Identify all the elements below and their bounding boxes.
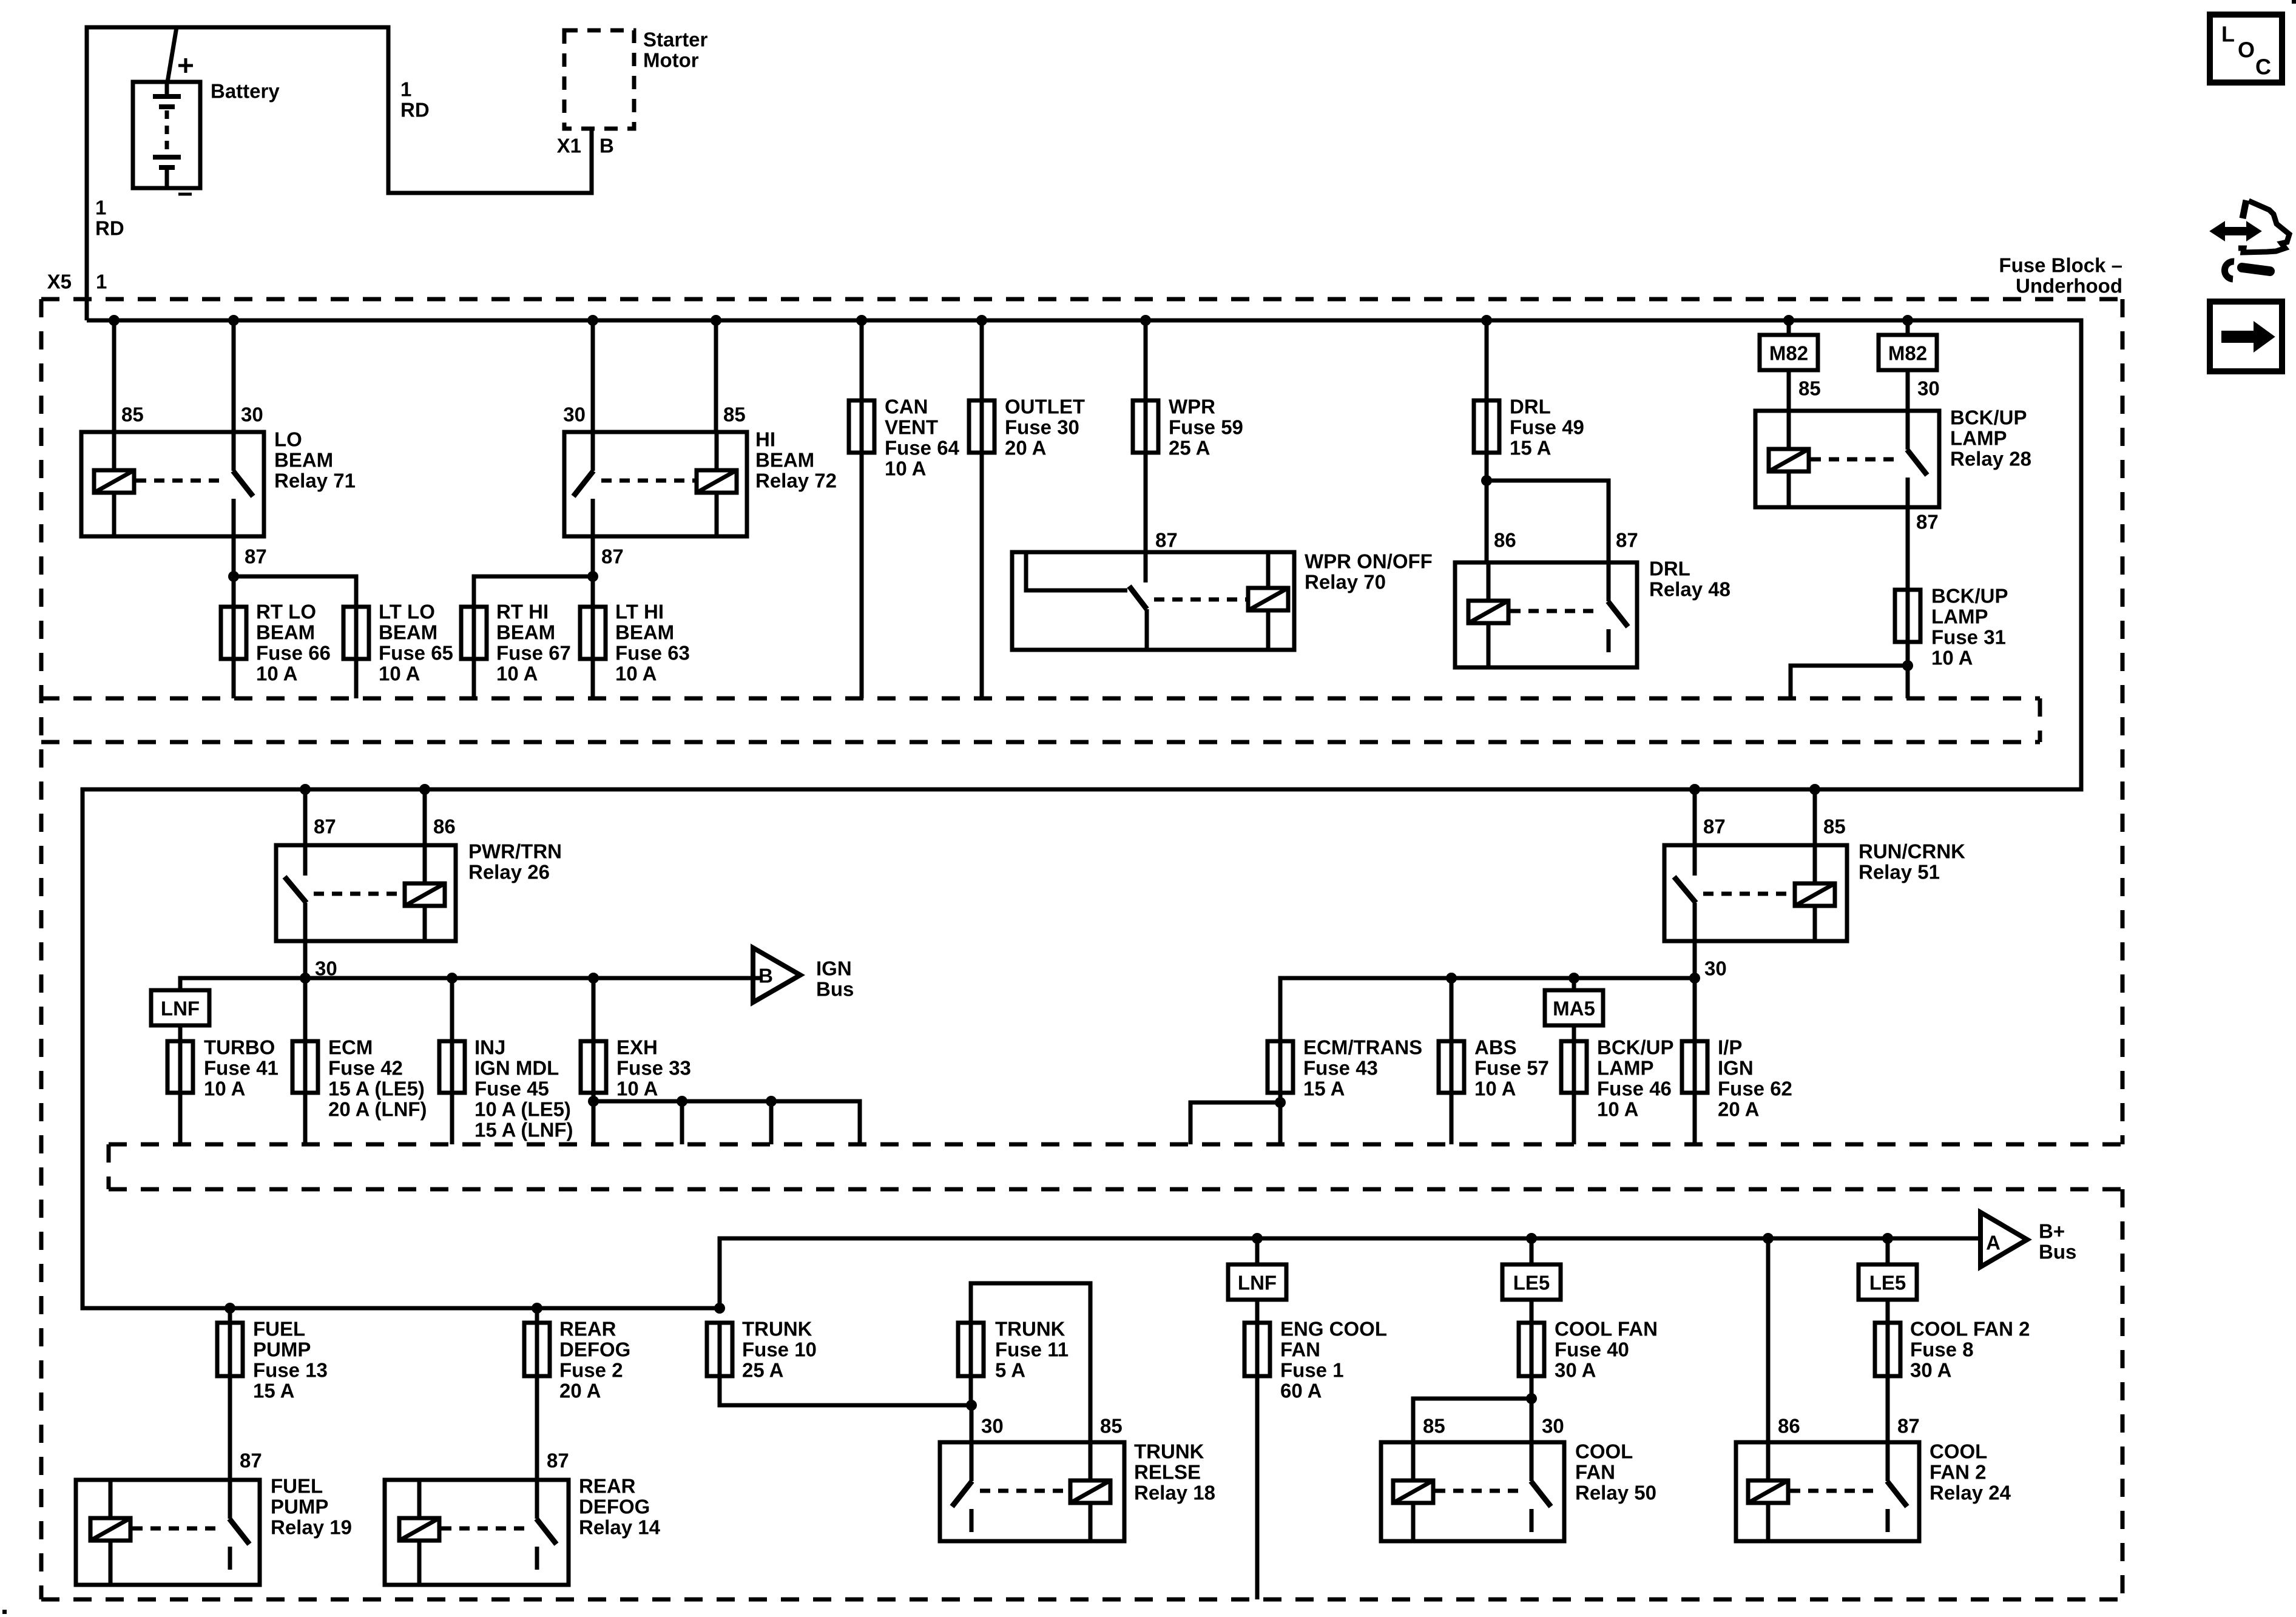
svg-text:BEAM: BEAM xyxy=(274,449,333,471)
svg-text:BCK/UP: BCK/UP xyxy=(1597,1036,1674,1059)
svg-text:Fuse 11: Fuse 11 xyxy=(995,1338,1069,1361)
svg-text:RD: RD xyxy=(95,217,124,240)
svg-text:B: B xyxy=(758,965,773,987)
svg-text:10 A: 10 A xyxy=(379,663,420,685)
svg-text:IGN: IGN xyxy=(1718,1057,1754,1079)
svg-text:O: O xyxy=(2238,38,2255,62)
svg-text:BCK/UP: BCK/UP xyxy=(1931,585,2008,607)
svg-text:M82: M82 xyxy=(1769,342,1808,365)
svg-text:10 A: 10 A xyxy=(204,1078,245,1100)
svg-text:Fuse 30: Fuse 30 xyxy=(1005,416,1079,439)
svg-text:X5: X5 xyxy=(47,271,72,293)
svg-text:Fuse 67: Fuse 67 xyxy=(496,642,571,664)
svg-text:25 A: 25 A xyxy=(742,1359,783,1382)
svg-text:85: 85 xyxy=(121,403,144,426)
svg-text:COOL: COOL xyxy=(1575,1440,1633,1463)
svg-text:Fuse 46: Fuse 46 xyxy=(1597,1078,1672,1100)
svg-text:30 A: 30 A xyxy=(1910,1359,1951,1382)
svg-text:86: 86 xyxy=(1494,529,1516,552)
svg-text:RD: RD xyxy=(400,99,430,121)
svg-text:RT HI: RT HI xyxy=(496,601,549,623)
svg-text:Fuse 62: Fuse 62 xyxy=(1718,1078,1792,1100)
svg-text:Fuse 8: Fuse 8 xyxy=(1910,1338,1974,1361)
svg-text:LT LO: LT LO xyxy=(379,601,435,623)
svg-text:BCK/UP: BCK/UP xyxy=(1950,407,2027,429)
svg-text:RUN/CRNK: RUN/CRNK xyxy=(1859,840,1965,863)
svg-text:FUEL: FUEL xyxy=(271,1475,323,1497)
svg-text:LE5: LE5 xyxy=(1513,1272,1550,1294)
svg-text:Fuse 31: Fuse 31 xyxy=(1931,626,2006,649)
svg-text:Relay 18: Relay 18 xyxy=(1134,1482,1215,1504)
svg-text:30: 30 xyxy=(241,403,263,426)
svg-text:10 A (LE5): 10 A (LE5) xyxy=(474,1098,571,1121)
svg-text:REAR: REAR xyxy=(559,1318,616,1340)
svg-text:FUEL: FUEL xyxy=(253,1318,305,1340)
svg-text:B: B xyxy=(599,135,614,157)
svg-text:Fuse 10: Fuse 10 xyxy=(742,1338,817,1361)
svg-text:30: 30 xyxy=(563,403,586,426)
svg-text:Starter: Starter xyxy=(643,29,708,51)
svg-text:DRL: DRL xyxy=(1649,558,1690,580)
svg-text:60 A: 60 A xyxy=(1280,1380,1322,1402)
svg-text:COOL FAN 2: COOL FAN 2 xyxy=(1910,1318,2030,1340)
svg-text:Relay 28: Relay 28 xyxy=(1950,448,2031,470)
svg-text:Relay 19: Relay 19 xyxy=(271,1516,352,1539)
svg-text:LAMP: LAMP xyxy=(1950,427,2007,450)
svg-text:1: 1 xyxy=(95,197,106,219)
svg-text:Relay 72: Relay 72 xyxy=(755,470,837,492)
svg-text:WPR ON/OFF: WPR ON/OFF xyxy=(1305,550,1433,573)
svg-text:LNF: LNF xyxy=(161,998,200,1020)
svg-text:LO: LO xyxy=(274,428,302,451)
svg-text:Fuse 13: Fuse 13 xyxy=(253,1359,328,1382)
svg-text:87: 87 xyxy=(1616,529,1638,552)
svg-text:20 A: 20 A xyxy=(559,1380,601,1402)
svg-text:CAN: CAN xyxy=(885,396,928,418)
svg-text:87: 87 xyxy=(314,815,336,838)
svg-text:20 A: 20 A xyxy=(1718,1098,1759,1121)
svg-text:Fuse 41: Fuse 41 xyxy=(204,1057,279,1079)
svg-text:30 A: 30 A xyxy=(1555,1359,1596,1382)
svg-text:87: 87 xyxy=(1155,529,1178,552)
svg-text:Motor: Motor xyxy=(643,49,699,72)
svg-text:Fuse 64: Fuse 64 xyxy=(885,437,960,459)
svg-text:TRUNK: TRUNK xyxy=(1134,1440,1204,1463)
svg-text:RT LO: RT LO xyxy=(256,601,316,623)
svg-text:Relay 26: Relay 26 xyxy=(468,861,550,883)
svg-text:LAMP: LAMP xyxy=(1597,1057,1654,1079)
svg-text:DRL: DRL xyxy=(1510,396,1551,418)
svg-text:10 A: 10 A xyxy=(1931,647,1973,669)
svg-text:87: 87 xyxy=(547,1450,569,1472)
svg-text:REAR: REAR xyxy=(579,1475,636,1497)
svg-text:Fuse 57: Fuse 57 xyxy=(1474,1057,1549,1079)
svg-text:ABS: ABS xyxy=(1474,1036,1517,1059)
svg-text:L: L xyxy=(2221,22,2235,47)
svg-text:Fuse 33: Fuse 33 xyxy=(616,1057,691,1079)
svg-text:FAN: FAN xyxy=(1575,1461,1615,1484)
svg-text:BEAM: BEAM xyxy=(379,621,437,644)
svg-text:BEAM: BEAM xyxy=(496,621,555,644)
svg-text:Relay 70: Relay 70 xyxy=(1305,571,1386,593)
svg-text:15 A: 15 A xyxy=(1303,1078,1345,1100)
svg-text:A: A xyxy=(1986,1232,2001,1254)
svg-text:85: 85 xyxy=(1823,815,1846,838)
svg-text:ECM/TRANS: ECM/TRANS xyxy=(1303,1036,1422,1059)
svg-text:86: 86 xyxy=(1778,1415,1800,1437)
svg-text:86: 86 xyxy=(433,815,456,838)
svg-text:87: 87 xyxy=(1703,815,1726,838)
svg-text:1: 1 xyxy=(400,78,411,101)
svg-text:85: 85 xyxy=(1798,377,1821,400)
svg-text:Fuse 63: Fuse 63 xyxy=(615,642,690,664)
svg-text:30: 30 xyxy=(1917,377,1940,400)
svg-text:BEAM: BEAM xyxy=(256,621,315,644)
svg-text:FAN: FAN xyxy=(1280,1338,1320,1361)
svg-text:10 A: 10 A xyxy=(1597,1098,1638,1121)
svg-text:30: 30 xyxy=(1542,1415,1564,1437)
svg-text:10 A: 10 A xyxy=(496,663,538,685)
svg-text:Fuse 1: Fuse 1 xyxy=(1280,1359,1344,1382)
svg-text:LNF: LNF xyxy=(1238,1272,1277,1294)
svg-text:LT HI: LT HI xyxy=(615,601,664,623)
svg-text:COOL: COOL xyxy=(1930,1440,1987,1463)
svg-text:DEFOG: DEFOG xyxy=(579,1496,650,1518)
svg-text:Relay 71: Relay 71 xyxy=(274,470,356,492)
svg-text:10 A: 10 A xyxy=(1474,1078,1516,1100)
svg-text:20 A (LNF): 20 A (LNF) xyxy=(328,1098,427,1121)
svg-text:Fuse 45: Fuse 45 xyxy=(474,1078,549,1100)
svg-text:WPR: WPR xyxy=(1169,396,1215,418)
svg-text:IGN: IGN xyxy=(816,957,852,980)
svg-text:15 A: 15 A xyxy=(253,1380,294,1402)
svg-text:MA5: MA5 xyxy=(1553,998,1595,1020)
svg-text:Relay 24: Relay 24 xyxy=(1930,1482,2011,1504)
svg-text:87: 87 xyxy=(1916,511,1939,533)
svg-text:Fuse 43: Fuse 43 xyxy=(1303,1057,1378,1079)
svg-text:VENT: VENT xyxy=(885,416,938,439)
svg-text:Fuse 49: Fuse 49 xyxy=(1510,416,1584,439)
svg-text:M82: M82 xyxy=(1888,342,1927,365)
svg-text:OUTLET: OUTLET xyxy=(1005,396,1085,418)
svg-text:X1: X1 xyxy=(557,135,581,157)
svg-text:I/P: I/P xyxy=(1718,1036,1742,1059)
svg-text:Relay 50: Relay 50 xyxy=(1575,1482,1656,1504)
svg-text:87: 87 xyxy=(240,1450,262,1472)
svg-text:DEFOG: DEFOG xyxy=(559,1338,630,1361)
svg-text:IGN MDL: IGN MDL xyxy=(474,1057,559,1079)
svg-text:EXH: EXH xyxy=(616,1036,658,1059)
svg-text:10 A: 10 A xyxy=(885,457,926,480)
svg-text:PUMP: PUMP xyxy=(271,1496,328,1518)
svg-text:87: 87 xyxy=(1897,1415,1920,1437)
svg-text:INJ: INJ xyxy=(474,1036,505,1059)
svg-text:20 A: 20 A xyxy=(1005,437,1046,459)
svg-text:15 A: 15 A xyxy=(1510,437,1551,459)
svg-text:Fuse 66: Fuse 66 xyxy=(256,642,331,664)
svg-text:TRUNK: TRUNK xyxy=(742,1318,812,1340)
svg-text:Fuse 65: Fuse 65 xyxy=(379,642,453,664)
svg-text:85: 85 xyxy=(723,403,746,426)
svg-text:BEAM: BEAM xyxy=(755,449,814,471)
svg-text:87: 87 xyxy=(245,545,267,568)
svg-text:ECM: ECM xyxy=(328,1036,373,1059)
svg-text:10 A: 10 A xyxy=(616,1078,658,1100)
svg-text:Bus: Bus xyxy=(2039,1241,2076,1263)
svg-text:LE5: LE5 xyxy=(1869,1272,1906,1294)
svg-text:25 A: 25 A xyxy=(1169,437,1210,459)
svg-text:10 A: 10 A xyxy=(256,663,297,685)
svg-text:85: 85 xyxy=(1423,1415,1445,1437)
svg-text:C: C xyxy=(2255,55,2271,79)
svg-text:FAN 2: FAN 2 xyxy=(1930,1461,1987,1484)
svg-text:Battery: Battery xyxy=(211,80,280,103)
svg-text:Relay 51: Relay 51 xyxy=(1859,861,1940,883)
svg-text:15 A (LNF): 15 A (LNF) xyxy=(474,1119,573,1141)
svg-text:PWR/TRN: PWR/TRN xyxy=(468,840,562,863)
svg-text:HI: HI xyxy=(755,428,775,451)
svg-text:TRUNK: TRUNK xyxy=(995,1318,1065,1340)
svg-text:TURBO: TURBO xyxy=(204,1036,275,1059)
svg-text:BEAM: BEAM xyxy=(615,621,674,644)
svg-text:Relay 14: Relay 14 xyxy=(579,1516,661,1539)
svg-text:RELSE: RELSE xyxy=(1134,1461,1201,1484)
svg-text:Fuse 40: Fuse 40 xyxy=(1555,1338,1629,1361)
svg-text:Relay 48: Relay 48 xyxy=(1649,578,1730,601)
svg-text:30: 30 xyxy=(981,1415,1004,1437)
svg-text:Underhood: Underhood xyxy=(2016,275,2122,297)
svg-text:10 A: 10 A xyxy=(615,663,657,685)
svg-text:ENG COOL: ENG COOL xyxy=(1280,1318,1387,1340)
svg-text:Bus: Bus xyxy=(816,978,854,1001)
svg-text:87: 87 xyxy=(601,545,624,568)
svg-text:5 A: 5 A xyxy=(995,1359,1025,1382)
svg-text:PUMP: PUMP xyxy=(253,1338,311,1361)
svg-text:B+: B+ xyxy=(2039,1220,2065,1243)
svg-text:LAMP: LAMP xyxy=(1931,606,1988,628)
svg-text:1: 1 xyxy=(96,271,107,293)
svg-text:30: 30 xyxy=(1704,957,1727,980)
svg-text:Fuse 59: Fuse 59 xyxy=(1169,416,1243,439)
svg-text:Fuse 2: Fuse 2 xyxy=(559,1359,623,1382)
svg-text:Fuse Block –: Fuse Block – xyxy=(1999,254,2122,277)
svg-text:85: 85 xyxy=(1100,1415,1123,1437)
svg-text:COOL FAN: COOL FAN xyxy=(1555,1318,1658,1340)
svg-text:Fuse 42: Fuse 42 xyxy=(328,1057,403,1079)
svg-text:15 A (LE5): 15 A (LE5) xyxy=(328,1078,425,1100)
